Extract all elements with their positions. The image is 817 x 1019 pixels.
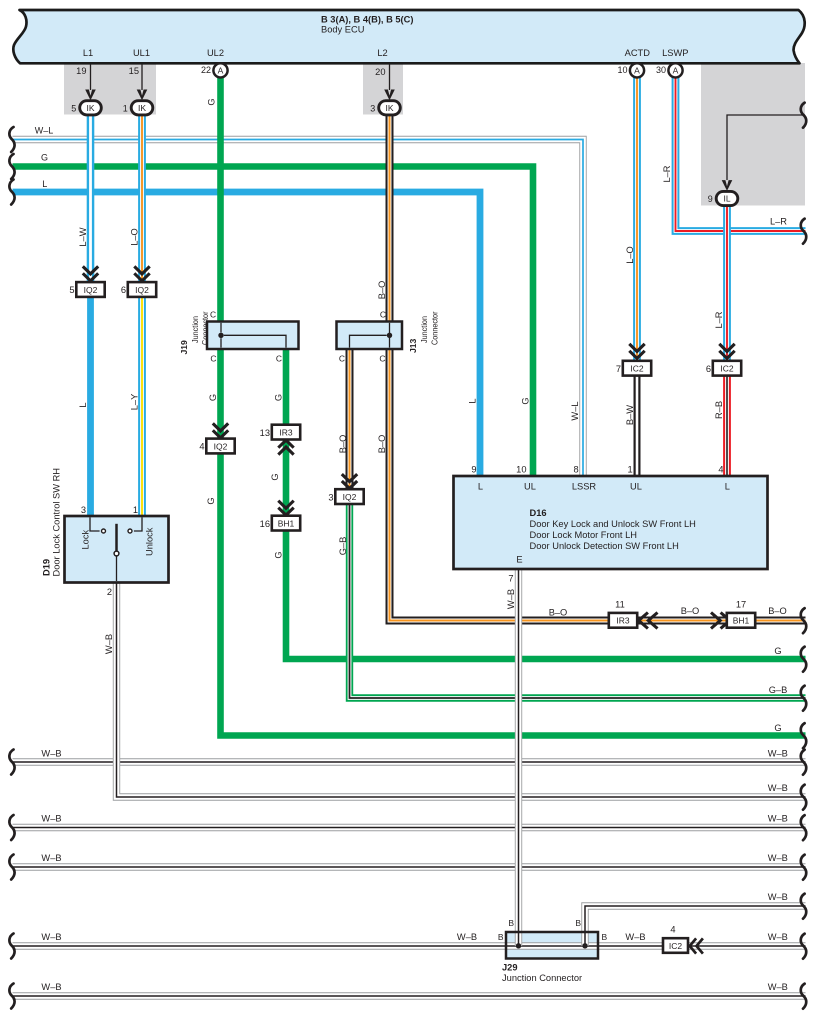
connector IR3-11 on B-O run [609,613,637,628]
svg-text:17: 17 [736,600,746,610]
left break W-L [9,127,14,152]
svg-text:Connector: Connector [430,311,440,345]
svg-text:9: 9 [471,465,476,475]
svg-text:W–B: W–B [768,982,788,992]
chevrons into IQ2-3 [342,474,357,482]
svg-text:L: L [478,481,483,491]
chevrons right toward BH1-17 [711,613,720,629]
right break G2 [801,723,806,748]
svg-text:L1: L1 [83,48,93,58]
connector IC2-4 on W-B run [663,938,688,953]
svg-text:LSSR: LSSR [572,481,597,491]
switch lever D19 [115,524,118,551]
svg-text:A: A [673,66,679,76]
wire B-O branch from J13 to IQ2-3 [346,349,354,489]
junction connector J29 fill [506,932,598,959]
wire G horizontal from left edge to D16 pin 10 [13,167,534,477]
svg-text:C: C [210,354,216,364]
right break W-B 906 [801,894,806,919]
left break L [9,180,14,205]
svg-text:W–B: W–B [768,783,788,793]
right break L-R [801,219,806,244]
chevrons into IQ2-5 [83,266,98,274]
svg-text:J19: J19 [179,340,189,355]
svg-text:9: 9 [708,194,713,204]
svg-text:3: 3 [328,492,333,502]
svg-text:4: 4 [670,924,675,934]
wire G branch J19 through IR3-13 and BH1-16 to right edge [286,349,806,659]
svg-text:C: C [339,354,345,364]
chevrons into IQ2-6 [134,266,149,274]
oval 3 IK [379,101,401,115]
svg-text:L–Y: L–Y [129,394,139,411]
right break B-O [801,608,806,633]
right break IL line [801,103,806,128]
wire W-B horizontal row 7 [13,992,806,999]
svg-text:7: 7 [508,574,513,584]
circle 30 A [668,63,682,77]
left break W-B row1 [9,750,14,775]
svg-text:Door Lock Motor Front LH: Door Lock Motor Front LH [530,530,637,540]
svg-text:22: 22 [201,65,211,75]
svg-text:UL2: UL2 [207,48,224,58]
door lock control switch D19 [65,516,169,583]
left break G [9,154,14,179]
svg-text:G: G [41,152,48,162]
wire B-O from pin3 IK down through J13 then right to IR3-11/BH1-17 and right edge [390,115,806,621]
svg-text:W–B: W–B [768,853,788,863]
Body ECU banner B 3(A), B 4(B), B 5(C) [13,10,804,63]
connector IQ2-5 [76,282,104,297]
svg-text:C: C [276,354,282,364]
svg-text:L: L [725,481,730,491]
wire W-L horizontal from left edge to D16 pin 8 [13,140,584,477]
svg-text:L: L [78,402,88,407]
svg-text:G: G [270,473,280,480]
svg-text:D16: D16 [530,508,547,518]
svg-text:10: 10 [617,65,627,75]
chevrons into IC2-7 [629,344,644,352]
svg-text:B: B [575,918,581,928]
svg-text:W–B: W–B [768,932,788,942]
svg-text:Door Key Lock and Unlock SW Fr: Door Key Lock and Unlock SW Front LH [530,519,696,529]
svg-text:Connector: Connector [200,311,210,345]
svg-text:G: G [206,497,216,504]
svg-text:W–L: W–L [35,125,54,135]
wire L horizontal from left edge to D16 pin 9 [13,192,481,476]
svg-text:J13: J13 [408,338,418,353]
wire W-B from right edge to J29 right pin (row 5) [585,906,806,946]
svg-text:A: A [218,66,224,76]
pin 19 arrow into 5 IK [90,64,92,90]
svg-text:30: 30 [656,65,666,75]
svg-text:A: A [634,66,640,76]
svg-text:3: 3 [370,103,375,113]
svg-text:L2: L2 [377,48,387,58]
wire L-O from ACTD circle A down to IC2-7 [633,78,641,360]
svg-text:W–L: W–L [570,401,580,420]
chevrons into IC2-6 [719,344,734,352]
svg-text:G: G [274,551,284,558]
svg-text:W–B: W–B [41,932,61,942]
svg-text:5: 5 [69,285,74,295]
svg-text:IC2: IC2 [720,364,734,374]
svg-text:G: G [774,723,781,733]
connector IQ2-3 [335,489,363,504]
svg-text:L: L [467,398,477,403]
svg-text:BH1: BH1 [278,518,295,528]
svg-text:B–O: B–O [377,281,387,300]
wire G-B below IQ2-3 to right edge [350,504,806,698]
svg-text:2: 2 [107,587,112,597]
wire L-W pin5 IK to IQ2 [87,115,95,281]
svg-text:20: 20 [375,67,385,77]
svg-text:IL: IL [723,194,730,204]
svg-text:W–B: W–B [506,589,516,609]
right break W-B 996 [801,984,806,1009]
chevrons left of IR3-11 [648,613,657,629]
wire L-Y below IQ2-6 to D19 pin 1 [138,298,146,516]
wire B-W below IC2-7 to D16 pin 1 [634,376,641,477]
svg-text:19: 19 [76,66,86,76]
svg-text:Unlock: Unlock [145,527,155,556]
connector IQ2-4 [206,439,234,454]
svg-text:L–O: L–O [625,246,635,264]
svg-text:L–O: L–O [129,228,139,246]
svg-text:Lock: Lock [81,530,91,550]
svg-text:IQ2: IQ2 [343,492,357,502]
svg-text:IQ2: IQ2 [135,285,149,295]
svg-text:B: B [498,932,504,942]
connector IR3-13 [272,425,300,440]
svg-text:L: L [42,179,47,189]
svg-text:G: G [208,394,218,401]
svg-text:D19: D19 [42,559,52,576]
svg-text:UL1: UL1 [133,48,150,58]
svg-text:E: E [516,555,522,565]
svg-text:11: 11 [615,600,625,610]
left break W-B row7 [9,984,14,1009]
left break W-B row6 [9,934,14,959]
svg-text:W–B: W–B [41,749,61,759]
svg-text:G: G [520,397,530,404]
svg-text:1: 1 [123,103,128,113]
svg-text:IK: IK [138,103,146,113]
svg-text:15: 15 [129,66,139,76]
svg-text:G–B: G–B [338,537,348,556]
left break W-B row3 [9,815,14,840]
svg-text:Body ECU: Body ECU [321,25,364,35]
svg-text:C: C [210,310,216,320]
svg-text:IK: IK [86,103,94,113]
wire W-B from D16 pin E down to J29 left pin [515,569,522,946]
svg-text:L–R: L–R [662,165,672,182]
svg-text:IR3: IR3 [616,616,630,626]
svg-text:B–O: B–O [377,435,387,454]
gray highlight box behind pins 19/15 [64,64,156,115]
svg-text:6: 6 [121,285,126,295]
connector BH1-17 on B-O run [727,613,755,628]
right break G [801,647,806,672]
svg-text:5: 5 [71,103,76,113]
svg-text:IQ2: IQ2 [84,285,98,295]
svg-text:L–R: L–R [714,311,724,328]
connector IQ2-6 [128,282,156,297]
svg-text:W–B: W–B [768,892,788,902]
svg-text:G: G [774,646,781,656]
oval 1 IK [131,101,153,115]
right break W-B 867 [801,855,806,880]
wire L solid below IQ2-5 to D19 pin 3 [87,298,94,516]
svg-text:6: 6 [706,364,711,374]
svg-text:B–O: B–O [768,606,787,616]
pin 20 arrow into 3 IK [389,64,391,90]
svg-text:13: 13 [260,428,270,438]
chevrons up into IR3-13 [278,447,293,455]
right break W-B 797 [801,785,806,810]
svg-text:Door Unlock Detection SW Front: Door Unlock Detection SW Front LH [530,541,679,551]
left break W-B row4 [9,855,14,880]
svg-text:W–B: W–B [41,853,61,863]
right break W-B 827.5 [801,815,806,840]
svg-text:B–O: B–O [681,606,700,616]
svg-text:16: 16 [260,519,270,529]
svg-text:J29: J29 [502,963,518,973]
wire W-B horizontal row 3 [13,824,806,831]
svg-text:Junction Connector: Junction Connector [502,973,582,983]
svg-text:ACTD: ACTD [625,48,651,58]
svg-text:B: B [508,918,514,928]
door lock assembly D16 [454,476,768,569]
svg-text:Junction: Junction [419,316,429,343]
svg-text:4: 4 [718,465,723,475]
right break W-B 946 [801,934,806,959]
svg-text:IR3: IR3 [279,427,293,437]
svg-text:Junction: Junction [190,316,200,343]
svg-text:IC2: IC2 [630,364,644,374]
svg-text:3: 3 [81,505,86,515]
svg-text:BH1: BH1 [733,616,750,626]
chevrons into BH1-16 [278,501,293,509]
oval 5 IK [80,101,102,115]
right break W-B 762 [801,750,806,775]
pin 15 arrow into 1 IK [141,64,143,90]
right break G-B [801,686,806,711]
svg-text:B–O: B–O [338,435,348,454]
svg-text:8: 8 [574,465,579,475]
gray highlight box top right [701,63,805,206]
thin feed line from right edge into 9 IL [727,115,805,180]
svg-text:IK: IK [385,103,393,113]
svg-text:L–R: L–R [770,217,787,227]
svg-text:B 3(A), B 4(B), B 5(C): B 3(A), B 4(B), B 5(C) [321,14,413,24]
chevrons into IQ2-4 [213,423,228,431]
svg-text:C: C [380,310,386,320]
svg-text:G–B: G–B [769,685,788,695]
junction connector J19 [207,322,299,350]
svg-text:B–O: B–O [549,607,568,617]
svg-text:G: G [274,394,284,401]
connector BH1-16 [272,516,300,531]
svg-text:W–B: W–B [768,749,788,759]
svg-text:G: G [207,98,217,105]
connector IC2-6 [713,361,741,376]
svg-text:Door Lock Control SW RH: Door Lock Control SW RH [52,468,62,577]
gray highlight box behind pin 20 [363,64,403,115]
svg-text:LSWP: LSWP [662,48,688,58]
wire L-O pin1 IK to IQ2-6 [138,115,146,281]
svg-text:W–B: W–B [41,814,61,824]
svg-text:IQ2: IQ2 [214,441,228,451]
svg-text:W–B: W–B [768,814,788,824]
wire W-B horizontal row 1 [13,758,806,765]
circle 10 A [630,63,644,77]
svg-text:IC2: IC2 [669,941,683,951]
svg-text:R–B: R–B [714,401,724,419]
svg-text:10: 10 [516,465,526,475]
wire W-B from D19 pin 2 down then right (row 2) [117,583,806,798]
wire W-B horizontal row 6 through J29 [13,942,806,949]
svg-text:1: 1 [628,465,633,475]
wire R-B below IC2-6 to D16 pin 4 [723,376,731,477]
svg-text:B: B [602,932,608,942]
svg-text:W–B: W–B [625,932,645,942]
svg-text:UL: UL [524,481,536,491]
svg-text:L–W: L–W [78,227,88,246]
circle 22 A [213,63,227,77]
svg-text:4: 4 [199,442,204,452]
junction connector J29 border [506,932,598,959]
wire L-R from LSWP to right edge [676,78,806,231]
wire W-B horizontal row 4 [13,863,806,870]
connector IC2-7 [623,361,651,376]
chevrons right of IC2-4 [697,938,703,953]
wire G from UL2 circle A down through J19 to IQ2-4 then right edge [221,78,806,736]
wire L-R from 9 IL down to IC2-6 [723,206,731,360]
svg-text:C: C [379,354,385,364]
oval 9 IL [716,191,738,205]
svg-text:W–B: W–B [41,982,61,992]
svg-text:W–B: W–B [104,634,114,654]
svg-text:7: 7 [616,364,621,374]
svg-text:UL: UL [630,481,642,491]
svg-text:1: 1 [133,505,138,515]
junction connector J13 [337,322,403,350]
svg-text:B–W: B–W [625,405,635,425]
svg-text:W–B: W–B [457,932,477,942]
